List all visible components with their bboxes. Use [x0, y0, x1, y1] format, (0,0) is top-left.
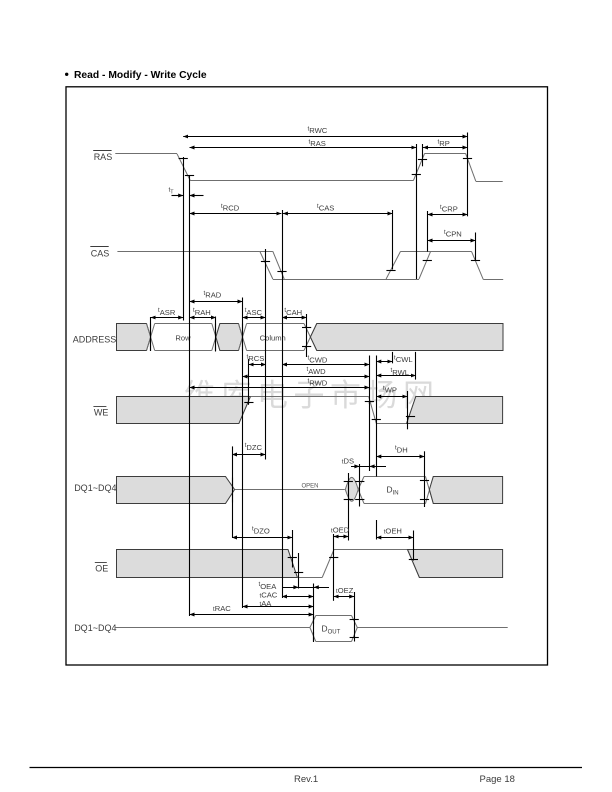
- footer rule: [30, 767, 583, 769]
- tick Column end lower: [302, 346, 311, 348]
- node DIN valid window outline: [364, 476, 426, 478]
- dimension tRAH: [190, 317, 216, 319]
- dimension tRCS: [249, 364, 266, 366]
- node reference line at RAS rise tick x=422.4: [422, 144, 424, 166]
- dimension tCWL: [376, 361, 392, 363]
- dimension tRAD: [190, 301, 243, 303]
- dimension tRP: [423, 147, 468, 149]
- svg-text:Page 18: Page 18: [480, 774, 515, 785]
- node reference line at WE fall end x=376.3: [376, 356, 378, 477]
- dimension tT (outside arrows): [172, 195, 184, 197]
- svg-text:tDS: tDS: [342, 456, 354, 465]
- svg-text:WE: WE: [94, 407, 109, 417]
- wire RAS high level (precharge pulse): [425, 153, 466, 155]
- tick lens right lower: [355, 499, 364, 501]
- svg-text:Rev.1: Rev.1: [294, 774, 318, 785]
- wire CAS low level: [273, 279, 419, 281]
- OE dont-care band (left): [117, 550, 298, 578]
- dimension tDZO: [232, 537, 292, 539]
- tick DOUT end upper: [350, 619, 359, 621]
- wire RAS low tail: [476, 181, 503, 183]
- svg-text:tAA: tAA: [260, 599, 273, 608]
- svg-text:Column: Column: [260, 333, 286, 342]
- node reference line at CAS precharge fall x=475.5: [475, 233, 477, 262]
- svg-text:tRCS: tRCS: [247, 353, 265, 363]
- dimension tRCD: [190, 213, 282, 215]
- tick Row end lower: [215, 341, 217, 351]
- DQ transition X after DIN: [426, 477, 434, 504]
- wire RAS low level: [190, 180, 413, 182]
- dimension tOEA (outside arrows): [282, 587, 329, 589]
- tick OE fall lower: [294, 572, 303, 574]
- svg-text:tRWL: tRWL: [391, 367, 409, 377]
- node reference line at RAS rise x=416.3: [416, 144, 418, 279]
- tick RAS fall lower: [185, 175, 194, 177]
- svg-text:CAS: CAS: [91, 248, 110, 258]
- svg-text:OE: OE: [95, 563, 108, 573]
- dimension tRAC: [190, 614, 314, 616]
- tick Row end upper: [215, 324, 217, 334]
- svg-text:tASC: tASC: [245, 307, 263, 317]
- OE dont-care band (right): [408, 550, 503, 578]
- DQ setup lens: [345, 477, 358, 501]
- svg-text:tCAS: tCAS: [317, 203, 334, 213]
- dimension tCWD: [282, 364, 369, 366]
- tick DQ taper lower: [232, 493, 234, 503]
- node reference line at column address start x=242.5: [242, 298, 244, 609]
- node reference line at DOUT valid x=313.6: [313, 584, 315, 642]
- node reference line at WE fall start x=369.4: [369, 356, 371, 472]
- wire RAS high level (left): [115, 153, 177, 155]
- address bus dont-care hexagon between Row and Column: [216, 324, 243, 351]
- tick WE fall upper: [365, 401, 374, 403]
- svg-text:ADDRESS: ADDRESS: [73, 334, 117, 344]
- tick OE precharge fall: [409, 559, 418, 561]
- tick CAS precharge fall: [471, 260, 480, 262]
- svg-text:tRAS: tRAS: [309, 139, 326, 149]
- svg-text:tOED: tOED: [331, 525, 350, 534]
- tick Column end upper: [302, 327, 311, 329]
- tick DIN end upper: [420, 480, 429, 482]
- wire CAS second falling edge: [472, 251, 484, 279]
- node reference line at DIN hold end x=424.5: [424, 451, 426, 507]
- node reference line at OE rise end x=333.7: [333, 534, 335, 601]
- dimension tDZC: [232, 454, 266, 456]
- wire DQ output hi-Z line (right): [357, 627, 507, 629]
- wire RAS second falling edge: [466, 153, 476, 181]
- address bus transition X after Row: [212, 324, 220, 351]
- wire OE high level: [334, 549, 408, 551]
- svg-text:tCRP: tCRP: [440, 204, 458, 214]
- node reference line at WE rise start x=407.3: [407, 391, 409, 429]
- svg-text:tDZO: tDZO: [252, 526, 270, 536]
- tick OE fall upper: [288, 557, 297, 559]
- svg-text:tCPN: tCPN: [444, 229, 462, 239]
- wire DQ open bus line: [235, 489, 345, 491]
- wire CAS high level (precharge): [401, 251, 472, 253]
- dimension tCAH: [282, 317, 307, 319]
- svg-text:tOEH: tOEH: [384, 526, 402, 535]
- svg-text:tCWD: tCWD: [308, 355, 328, 365]
- tick RAS precharge fall: [463, 158, 472, 160]
- node reference line at OE fall start x=292.3: [292, 530, 294, 568]
- node reference line at RAS fall end x=189.5: [189, 175, 191, 616]
- svg-text:tRP: tRP: [438, 138, 450, 148]
- tick Column start lower: [242, 341, 244, 351]
- node reference line at CAS fall end x=282: [282, 210, 284, 598]
- tick DOUT start upper: [313, 614, 315, 624]
- dimension tDS (outside arrows): [351, 466, 386, 468]
- dimension tCAC: [282, 596, 314, 598]
- tick CAS fall-start diagonal: [261, 261, 270, 263]
- svg-text:DQ1~DQ4: DQ1~DQ4: [74, 623, 116, 633]
- node reference line at CAS fall start x=265.5: [265, 249, 267, 460]
- wire WE rising edge: [407, 397, 416, 424]
- node reference line at column address end x=306.6: [306, 314, 308, 357]
- diagram frame: [66, 87, 548, 665]
- dimension tASC: [243, 317, 266, 319]
- dimension tCRP: [428, 214, 468, 216]
- tick Column start upper: [242, 324, 244, 334]
- svg-text:tDH: tDH: [395, 445, 408, 455]
- tick address X left lower: [150, 341, 152, 351]
- node reference line at address X left x=150.7: [150, 317, 152, 351]
- svg-text:tRCD: tRCD: [221, 203, 240, 213]
- address bus dont-care band (right): [310, 324, 503, 351]
- svg-text:tAWD: tAWD: [307, 366, 327, 376]
- WE dont-care band (left): [117, 397, 251, 424]
- dimension tDH: [376, 456, 424, 458]
- node reference line at WE rise end x=248.7: [248, 359, 250, 405]
- tick CAS rise-end diagonal: [423, 260, 432, 262]
- wire CAS high level (left): [117, 251, 259, 253]
- wire RAS rising edge: [413, 153, 424, 180]
- dimension tRWL: [376, 375, 416, 377]
- dimension tASR: [151, 317, 184, 319]
- node Column field outline: [247, 323, 304, 325]
- svg-text:tRWC: tRWC: [308, 125, 328, 135]
- dimension tCPN: [428, 240, 476, 242]
- dimension tAA: [243, 606, 314, 608]
- wire OE rising edge: [322, 550, 334, 578]
- DQ write data dont-care band (left): [117, 477, 235, 504]
- tick RAS rise upper: [418, 159, 427, 161]
- tick OE rise: [329, 557, 338, 559]
- tick RAS fall upper: [179, 158, 188, 160]
- wire RAS falling edge: [177, 154, 190, 181]
- tick DIN end lower: [420, 499, 429, 501]
- node reference line at RAS fall start x=183: [183, 157, 185, 321]
- node reference line at OE fall end x=298.6: [298, 553, 300, 589]
- tick lens left upper: [344, 481, 353, 483]
- svg-text:tRAH: tRAH: [193, 307, 211, 317]
- svg-text:Row: Row: [175, 333, 191, 342]
- wire CAS low tail: [483, 279, 503, 281]
- tick DOUT end lower: [350, 637, 359, 639]
- node reference line at CAS rise end x=427.5: [427, 211, 429, 252]
- tick WE left-band rise diagonal: [244, 402, 253, 404]
- tick WE fall lower: [372, 419, 381, 421]
- node DOUT closing transition: [352, 616, 358, 628]
- node reference line tCWL end x=392.3: [392, 352, 394, 363]
- node DOUT opening transition: [310, 616, 316, 628]
- wire WE falling edge: [369, 397, 377, 424]
- svg-text:tCWL: tCWL: [394, 354, 413, 364]
- tick lens right upper: [355, 481, 364, 483]
- dimension tOED: [334, 536, 349, 538]
- svg-text:tOEZ: tOEZ: [336, 586, 354, 595]
- node reference line at OE fall tick x=413.4: [413, 531, 415, 561]
- svg-text:tOEA: tOEA: [259, 581, 278, 591]
- title bullet: [65, 73, 68, 76]
- svg-text:tRAC: tRAC: [213, 604, 231, 613]
- address bus transition X before Column: [239, 324, 247, 351]
- svg-text:tWP: tWP: [383, 385, 397, 395]
- wire CAS fall window parallelogram: [260, 251, 273, 279]
- node reference line at tRWL end x=415.8: [415, 352, 417, 380]
- dimension tRWD: [190, 387, 370, 389]
- wire CAS rise window parallelogram: [386, 251, 400, 279]
- tick DOUT start lower: [313, 632, 315, 642]
- svg-text:Read - Modify - Write Cycle: Read - Modify - Write Cycle: [74, 70, 207, 81]
- dimension tOEH: [376, 537, 413, 539]
- tick WE rise: [406, 416, 415, 418]
- DQ write data dont-care band (right): [429, 477, 502, 504]
- wire OE low level: [297, 577, 322, 579]
- wire WE low level (write pulse): [376, 423, 406, 425]
- dimension tOEZ: [334, 596, 355, 598]
- svg-text:DQ1~DQ4: DQ1~DQ4: [74, 483, 116, 493]
- wire OE falling edge: [408, 550, 420, 578]
- svg-text:OPEN: OPEN: [302, 483, 319, 489]
- dimension tAWD: [243, 376, 370, 378]
- tick CAS rise-start diagonal: [386, 270, 395, 272]
- node reference line at DQ hi-Z start x=232: [232, 446, 234, 537]
- tick CAS fall-end diagonal: [277, 271, 286, 273]
- address bus dont-care band (left): [117, 324, 151, 351]
- node DIN opening transition: [358, 477, 364, 490]
- WE dont-care band (right): [407, 397, 503, 424]
- svg-text:tRWD: tRWD: [308, 378, 328, 388]
- tick lens left lower: [344, 499, 353, 501]
- dimension tWP: [376, 396, 407, 398]
- node reference line at DIN valid start x=359.6: [359, 464, 361, 507]
- dimension tCAS: [283, 213, 393, 215]
- svg-text:RAS: RAS: [94, 152, 113, 162]
- wire WE high level: [251, 396, 369, 398]
- node reference line at RAS precharge fall x=467.5: [467, 133, 469, 217]
- node reference line at CAS rise start x=392.4: [392, 210, 394, 270]
- node reference line at DOUT end x=354.2: [354, 592, 356, 642]
- dimension tRAS: [190, 147, 417, 149]
- svg-text:tDZC: tDZC: [245, 442, 263, 452]
- svg-text:tCAH: tCAH: [284, 307, 302, 317]
- node DOUT valid window outline: [316, 615, 352, 617]
- svg-text:tRAD: tRAD: [204, 290, 222, 300]
- tick address X left upper: [150, 324, 152, 334]
- tick RAS rise lower: [412, 174, 421, 176]
- address bus transition X before Row: [147, 324, 155, 351]
- wire DQ output hi-Z line (left): [115, 627, 310, 629]
- dimension tRWC: [183, 136, 467, 138]
- tick DQ taper upper: [232, 477, 234, 487]
- node reference line at DIN strobe x=348.4: [348, 473, 350, 541]
- node Row field outline: [155, 323, 212, 325]
- svg-text:tASR: tASR: [158, 307, 176, 317]
- node reference line at Row end x=215.9: [215, 317, 217, 352]
- address bus transition X after Column: [304, 324, 317, 351]
